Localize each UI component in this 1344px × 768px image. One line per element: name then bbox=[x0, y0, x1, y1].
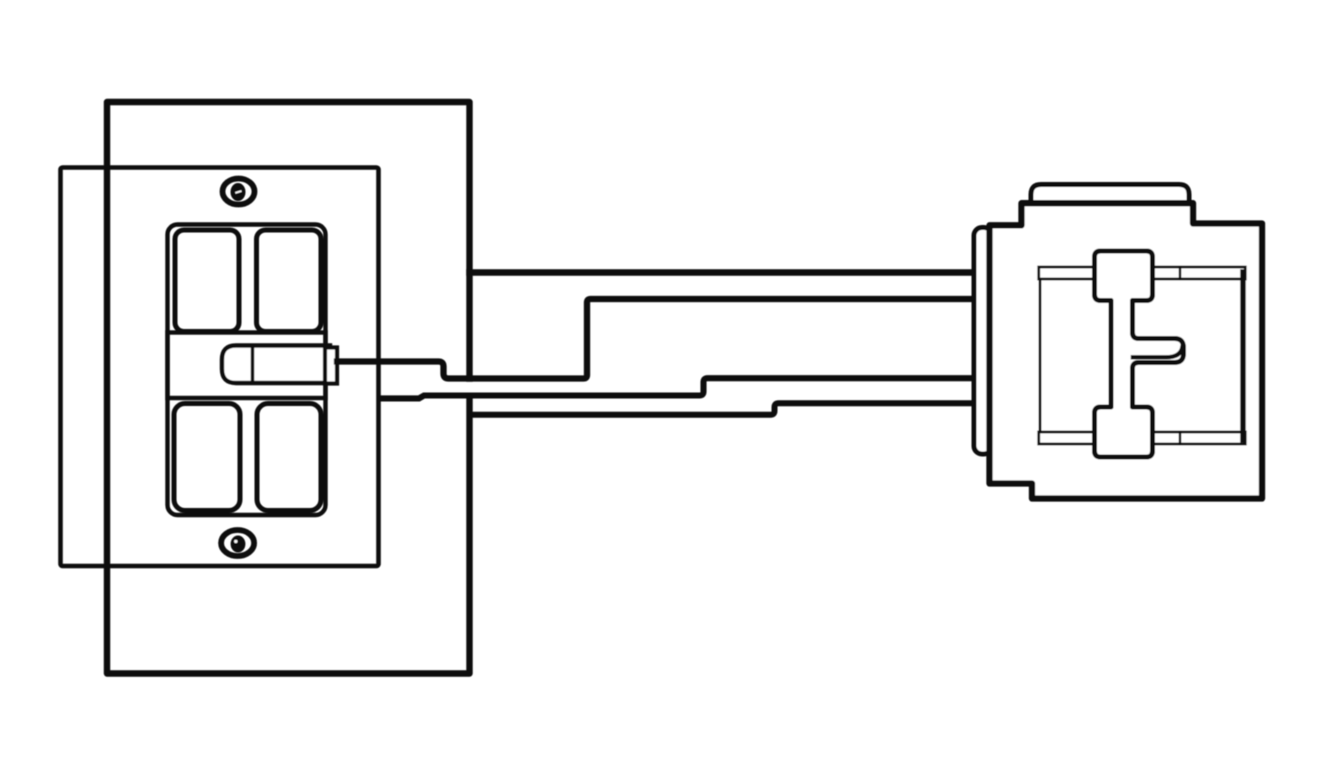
wall plate (outer plate rectangle) bbox=[61, 168, 379, 567]
screw bottom bbox=[221, 530, 254, 556]
switch box (tall rectangle), right edge broken where wires pass bbox=[107, 102, 470, 674]
relay top bump bbox=[1031, 185, 1189, 208]
rail divider top bbox=[1179, 267, 1182, 279]
wire W3 (stepped, middle) bbox=[381, 378, 977, 398]
rocker panel bottom-right bbox=[257, 404, 321, 511]
wire W2 (from paddle tab) bbox=[337, 299, 976, 379]
relay left bracket bbox=[974, 228, 992, 455]
rail divider bottom bbox=[1179, 432, 1182, 444]
inner square bottom rail bbox=[1039, 432, 1246, 444]
rocker panel top-left bbox=[175, 230, 239, 332]
middle band bbox=[168, 333, 326, 399]
paddle tab bbox=[325, 348, 337, 384]
paddle divider bbox=[251, 346, 255, 384]
rocker panel bottom-left bbox=[174, 404, 240, 511]
arm tip hook (inner fold line) bbox=[1133, 347, 1183, 358]
rocker panel top-right bbox=[257, 230, 322, 332]
armature dumbbell (two pads + bar + arm), single outline bbox=[1095, 251, 1184, 457]
inner square top rail bbox=[1039, 267, 1246, 279]
wire W4 (bottom stepped) bbox=[470, 403, 977, 415]
switch frame (rounded) bbox=[168, 225, 326, 516]
wire W1 (top) bbox=[470, 269, 977, 275]
screw top bbox=[223, 179, 255, 205]
inner square left edge bbox=[1039, 268, 1042, 443]
inner square right edge bbox=[1240, 272, 1246, 440]
relay body outline (with top step and bottom-left notch) bbox=[990, 203, 1263, 498]
paddle (slider) bbox=[222, 346, 330, 384]
